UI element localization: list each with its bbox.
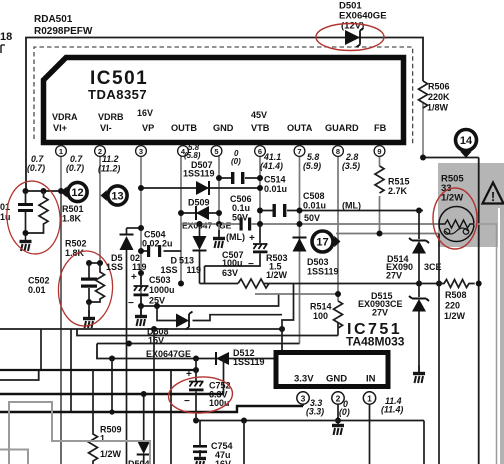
pin circle 6: [255, 146, 266, 157]
wire vertical x112: [111, 359, 113, 413]
node: [193, 418, 199, 424]
svg-text:63V: 63V: [222, 268, 238, 278]
node: [257, 208, 263, 214]
pin 4 wire: [180, 145, 182, 284]
dashed module boundary: [34, 47, 413, 144]
svg-text:220K: 220K: [428, 92, 450, 102]
capacitor C503: [134, 270, 149, 306]
red circle around D501: [316, 24, 384, 51]
gray staircase wires bottom-left: [9, 402, 150, 464]
gray highlight panel upper: [438, 163, 504, 208]
warning triangle: [483, 183, 504, 205]
stub wire y380: [0, 370, 39, 380]
svg-text:220: 220: [445, 301, 460, 311]
diode D502: [120, 228, 134, 464]
gray stub wire bottom-left: [0, 450, 28, 464]
svg-text:1SS119: 1SS119: [233, 357, 265, 367]
svg-text:C514: C514: [264, 175, 286, 185]
page edge gray strip lower right: [500, 208, 504, 464]
ground below C503: [140, 306, 142, 315]
svg-text:0.01u: 0.01u: [303, 201, 326, 211]
svg-text:1/2W: 1/2W: [266, 270, 288, 280]
ground below C501: [20, 233, 32, 251]
IC751 pin circle 1: [363, 392, 375, 404]
svg-text:1/2W: 1/2W: [444, 311, 466, 321]
wire from R503 line down to node 282,329: [282, 284, 294, 359]
svg-text:(11.4): (11.4): [381, 405, 403, 415]
svg-text:2.7K: 2.7K: [388, 186, 408, 196]
svg-text:(5.9): (5.9): [303, 161, 321, 171]
node: [476, 281, 482, 287]
svg-text:EX0647GE: EX0647GE: [146, 349, 191, 359]
bus line y370: [0, 369, 196, 371]
ground below pin5: [218, 224, 220, 237]
svg-text:GND: GND: [213, 123, 234, 133]
svg-text:27V: 27V: [386, 271, 402, 281]
clipped left-edge mark: [1, 45, 5, 53]
voltage annotations pins 4-5: [184, 143, 241, 166]
svg-text:VP: VP: [142, 123, 154, 133]
svg-text:1: 1: [59, 147, 63, 156]
red ellipse around C752: [167, 375, 233, 415]
pin circle 4: [178, 146, 189, 157]
svg-text:1: 1: [367, 394, 372, 404]
pin 5 wire: [218, 145, 220, 235]
svg-text:VTB: VTB: [251, 123, 270, 133]
svg-text:D: D: [171, 256, 178, 266]
svg-text:1SS119: 1SS119: [307, 267, 339, 277]
svg-text:−: −: [248, 259, 254, 270]
svg-text:16V: 16V: [137, 108, 153, 118]
svg-text:45V: 45V: [251, 110, 267, 120]
svg-text:6: 6: [258, 147, 262, 156]
wire rail y233.5: [336, 233, 439, 235]
svg-text:12: 12: [71, 187, 83, 199]
IC501 box: [44, 58, 404, 143]
node: [178, 210, 184, 216]
thick wire from IC751 pin3: [0, 406, 303, 412]
svg-text:1/2W: 1/2W: [441, 193, 463, 204]
svg-text:VDRA: VDRA: [52, 112, 78, 122]
balloon 12: [61, 182, 88, 201]
diode D512: [216, 352, 229, 365]
svg-text:513: 513: [179, 256, 194, 266]
svg-text:5: 5: [214, 147, 218, 156]
svg-text:1SS: 1SS: [106, 262, 123, 272]
svg-text:R0298PEFW: R0298PEFW: [34, 26, 93, 37]
wire vertical x154: [153, 329, 155, 464]
node: [335, 291, 341, 297]
svg-text:−: −: [128, 298, 134, 309]
resistor R515: [375, 166, 384, 193]
pin circle 1: [56, 146, 67, 157]
pin 1 wire lower: [60, 191, 62, 464]
svg-text:TDA8357: TDA8357: [88, 87, 147, 102]
capacitor C507 electrolytic: [205, 224, 268, 284]
node: [23, 188, 29, 194]
bus line y394 thick: [0, 393, 224, 396]
ground below C502: [88, 302, 90, 317]
svg-text:VDRB: VDRB: [98, 112, 124, 122]
pin circle 8: [333, 146, 344, 157]
IC751 box: [276, 353, 388, 387]
svg-text:100u: 100u: [209, 398, 230, 408]
svg-text:2: 2: [336, 394, 341, 404]
diode D501: [345, 28, 364, 47]
node: [138, 185, 144, 191]
IC751 voltages: [306, 396, 403, 417]
50V rail: [181, 223, 439, 225]
red ellipse around C501/R501: [3, 178, 63, 256]
wire node to balloon14 corner: [423, 157, 479, 159]
wire R506 bottom to node: [422, 103, 424, 158]
wire vertical x171: [170, 370, 172, 464]
C503 bottom wire: [141, 294, 279, 306]
node: [86, 260, 92, 266]
svg-text:1SS119: 1SS119: [183, 169, 215, 179]
pin circle 5: [211, 146, 222, 157]
capacitor ML on rail: [240, 218, 252, 231]
svg-text:R502: R502: [65, 239, 87, 249]
node: [86, 299, 92, 305]
svg-text:OUTB: OUTB: [171, 123, 197, 133]
svg-text:+: +: [249, 233, 255, 244]
resistor R501: [26, 191, 49, 233]
IC751 pin circle 2: [332, 392, 344, 404]
svg-text:1000u: 1000u: [149, 285, 175, 295]
capacitor C752 electrolytic: [189, 359, 204, 421]
voltage annotations pins 6-8: [260, 152, 360, 171]
capacitor C506: [219, 177, 260, 179]
svg-text:(41.4): (41.4): [260, 161, 283, 171]
red ellipse around C502/R502: [56, 249, 115, 328]
svg-text:14: 14: [460, 135, 473, 147]
node: [138, 270, 144, 276]
balloon 14: [456, 130, 477, 158]
pin circle 7: [294, 146, 305, 157]
C501 network top wire: [26, 190, 62, 192]
svg-text:D504: D504: [128, 459, 150, 464]
svg-text:(ML): (ML): [226, 232, 245, 242]
svg-text:!: !: [491, 189, 495, 204]
capacitor C502: [81, 263, 97, 302]
gray highlight panel lower: [438, 208, 498, 247]
balloon 17: [312, 231, 341, 252]
diode D508 branch: [157, 306, 176, 321]
wire y421.5: [196, 421, 424, 464]
pin 2 wire: [99, 145, 101, 263]
stub wire x41: [40, 329, 42, 370]
bus line 15V y335.5: [77, 329, 338, 336]
wire C504 row: [141, 250, 181, 252]
node: [109, 356, 115, 362]
node: [23, 230, 29, 236]
svg-text:D503: D503: [307, 257, 329, 267]
node: [138, 303, 144, 309]
R505 right stub: [474, 224, 497, 464]
svg-text:VI-: VI-: [100, 123, 112, 133]
svg-text:(12V): (12V): [341, 21, 364, 32]
pin 3 wire: [140, 145, 142, 313]
diode D513: [193, 224, 207, 284]
zener diode D514: [409, 238, 429, 254]
svg-text:(0.7): (0.7): [27, 163, 45, 173]
IC751 pin stubs: [303, 391, 370, 464]
wire D507 row: [141, 187, 260, 189]
node at 423,157: [420, 155, 426, 161]
svg-text:(ML): (ML): [342, 201, 361, 211]
svg-text:119: 119: [187, 265, 202, 275]
svg-text:7: 7: [297, 147, 301, 156]
svg-text:0.01u: 0.01u: [264, 184, 287, 194]
svg-text:D509: D509: [188, 198, 210, 208]
svg-text:119: 119: [132, 262, 147, 272]
wire x439 down: [438, 234, 440, 464]
svg-text:1SS: 1SS: [161, 265, 178, 275]
svg-text:8: 8: [336, 147, 340, 156]
svg-text:(3.5): (3.5): [342, 161, 360, 171]
svg-text:100: 100: [313, 311, 328, 321]
svg-text:1.8K: 1.8K: [62, 214, 82, 224]
diode D504: [137, 394, 151, 464]
wire gray to R514 node: [255, 293, 338, 295]
node: [178, 281, 184, 287]
svg-text:18: 18: [0, 31, 12, 43]
fusible resistor R505: [439, 207, 474, 242]
capacitor C504: [147, 245, 161, 257]
svg-text:1.8K: 1.8K: [65, 248, 85, 258]
svg-text:9: 9: [377, 147, 381, 156]
pin circle 3: [136, 146, 147, 157]
svg-text:0.02 2u: 0.02 2u: [142, 239, 173, 249]
node: [151, 326, 157, 332]
svg-text:16V: 16V: [215, 459, 231, 464]
svg-text:(3.3): (3.3): [306, 407, 324, 417]
svg-text:11.2: 11.2: [102, 154, 119, 164]
diode D503: [293, 238, 307, 252]
svg-text:3CE: 3CE: [424, 262, 442, 272]
pin circle 9: [374, 146, 385, 157]
node: [138, 225, 144, 231]
node: [126, 341, 132, 347]
node: [377, 231, 383, 237]
capacitor C501: [18, 191, 33, 233]
svg-text:13: 13: [111, 191, 123, 203]
node: [141, 391, 147, 397]
ground below D515: [413, 365, 425, 383]
node: [138, 248, 144, 254]
svg-text:3.3V: 3.3V: [294, 374, 314, 385]
diode D509: [196, 206, 209, 220]
resistor R509: [89, 370, 98, 464]
svg-text:IC501: IC501: [90, 68, 148, 89]
zener chain wire x419: [419, 211, 423, 373]
svg-text:1/8W: 1/8W: [427, 103, 449, 113]
svg-text:0.1u: 0.1u: [232, 203, 250, 213]
pin 6 wire: [259, 145, 261, 224]
resistor R502: [89, 263, 105, 302]
C502/R502 network top wire: [89, 262, 100, 264]
node: [335, 418, 341, 424]
wire D508 output: [193, 315, 283, 321]
outer frame / 12V top wire: [26, 38, 423, 191]
svg-text:100u: 100u: [222, 258, 243, 268]
svg-text:3: 3: [301, 394, 306, 404]
wire vertical x71: [70, 329, 72, 412]
node: [197, 221, 203, 227]
svg-text:R515: R515: [388, 177, 410, 187]
resistor R503: [238, 279, 269, 288]
svg-text:17: 17: [316, 237, 328, 249]
capacitor C754: [193, 421, 207, 457]
svg-text:50V: 50V: [304, 213, 320, 223]
pin 7 wire: [299, 145, 301, 344]
wire right column x479: [478, 158, 480, 464]
svg-text:GND: GND: [326, 374, 347, 385]
svg-text:3: 3: [139, 147, 143, 156]
svg-text:OUTA: OUTA: [287, 123, 313, 133]
svg-text:TA48M033: TA48M033: [346, 335, 405, 349]
svg-text:C503: C503: [149, 275, 171, 285]
svg-text:R501: R501: [62, 204, 84, 214]
svg-text:(0): (0): [339, 407, 350, 417]
svg-text:1/2W: 1/2W: [100, 449, 122, 459]
resistor R508: [439, 280, 475, 288]
wire D502 branch: [127, 227, 142, 229]
svg-text:C508: C508: [303, 191, 325, 201]
svg-text:+: +: [131, 272, 137, 283]
svg-text:R514: R514: [310, 302, 332, 312]
IC751 pin circle 3: [297, 392, 309, 404]
wire D509 row: [181, 212, 219, 214]
svg-text:C502: C502: [28, 276, 50, 286]
svg-text:R506: R506: [428, 82, 450, 92]
node: [109, 409, 114, 414]
bus line y345.5: [97, 343, 300, 345]
svg-text:1u: 1u: [0, 212, 11, 222]
svg-text:(0.7): (0.7): [66, 163, 84, 173]
pin 9 wire: [379, 145, 381, 234]
svg-text:VI+: VI+: [53, 123, 67, 133]
svg-text:0.01: 0.01: [28, 285, 46, 295]
wire R503 row: [200, 283, 440, 285]
bus line L1 y329: [0, 328, 282, 330]
svg-text:GUARD: GUARD: [325, 123, 359, 133]
capacitor C508 row: [260, 210, 419, 212]
zener diode D515: [409, 296, 429, 312]
pin circle 2: [95, 146, 106, 157]
svg-text:FB: FB: [374, 123, 387, 133]
svg-text:(0): (0): [231, 157, 241, 166]
svg-text:(11.2): (11.2): [98, 164, 120, 174]
voltage annotations pins 1-3: [27, 154, 120, 174]
bus line D512 y358.5: [97, 344, 282, 359]
wire vertical x223: [223, 359, 225, 395]
balloon 13: [101, 186, 128, 205]
resistor R506: [419, 81, 428, 108]
svg-text:RDA501: RDA501: [34, 14, 73, 25]
svg-text:(5.8): (5.8): [184, 151, 201, 160]
pin 1 wire: [60, 145, 62, 191]
pin 8 wire below R514: [337, 322, 339, 336]
svg-text:IN: IN: [366, 374, 376, 385]
diode D507: [196, 181, 209, 195]
pin 8 wire: [337, 145, 339, 301]
ground IC751 pin2: [332, 417, 344, 435]
node: [216, 175, 222, 181]
svg-text:R508: R508: [445, 290, 467, 300]
red ellipse around R505: [433, 188, 477, 249]
svg-text:−: −: [184, 396, 190, 407]
resistor R514: [334, 301, 343, 328]
svg-text:27V: 27V: [372, 308, 388, 318]
svg-text:50V: 50V: [232, 213, 248, 223]
